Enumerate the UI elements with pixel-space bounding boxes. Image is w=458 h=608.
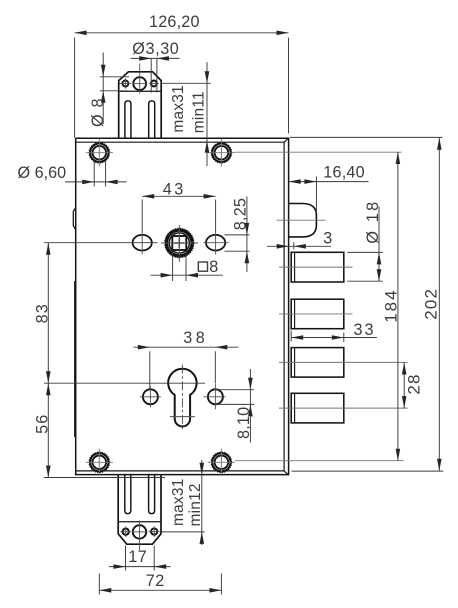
dim 72 extension lines bbox=[99, 574, 221, 595]
top-left screw knurled rim bbox=[89, 143, 109, 163]
dim 83 line bbox=[47, 243, 49, 384]
lock body inner top edge bbox=[76, 141, 284, 143]
svg-text:17: 17 bbox=[128, 548, 147, 566]
left oval hole bbox=[133, 235, 152, 251]
dim max31-min11 line bbox=[206, 62, 208, 166]
bottom plate right slot bbox=[149, 475, 155, 514]
svg-text:max31: max31 bbox=[170, 478, 187, 526]
svg-text:38: 38 bbox=[183, 329, 208, 347]
dim 33 line bbox=[291, 337, 377, 339]
lock body inner bottom edge bbox=[76, 470, 284, 472]
svg-text:8: 8 bbox=[209, 258, 218, 276]
left oval crosshair bbox=[141, 231, 143, 254]
left edge reinforcement line bbox=[74, 281, 76, 437]
bottom plate flange line bbox=[118, 521, 161, 523]
dim 3 arrows bbox=[277, 244, 306, 249]
dim 16,40 arrows bbox=[289, 179, 317, 184]
lock body outer outline bbox=[76, 138, 289, 474]
dim 202 extension lines bbox=[290, 137, 443, 471]
dim 202 line bbox=[438, 138, 440, 471]
bottom plate right hole crosshair bbox=[149, 526, 160, 537]
dim 72 arrows bbox=[99, 588, 221, 593]
svg-text:43: 43 bbox=[163, 181, 186, 199]
svg-text:Ø 8: Ø 8 bbox=[89, 97, 107, 127]
dim □8 extension lines bbox=[173, 251, 186, 281]
dim 83 arrows bbox=[46, 243, 51, 384]
bottom plate center hole crosshair bbox=[132, 521, 147, 550]
right oval crosshair bbox=[203, 231, 228, 254]
dim Ø18 line bbox=[378, 207, 380, 282]
dim 28 label bbox=[405, 373, 424, 394]
dim Ø8 arrows bbox=[101, 65, 106, 103]
dim 72 line bbox=[99, 589, 221, 591]
dim 16,40 label bbox=[323, 163, 365, 181]
top plate center hole ∅8 bbox=[133, 77, 146, 90]
dim 8,10 label bbox=[235, 407, 253, 439]
dim 38 arrows bbox=[138, 345, 228, 350]
dim 16,40 extension line bbox=[315, 177, 317, 213]
dim 3 label bbox=[323, 229, 332, 247]
right oval hole bbox=[206, 235, 225, 251]
bottom-left screw knurled rim bbox=[89, 452, 109, 472]
keyhole left circle crosshair bbox=[140, 386, 161, 407]
bottom mounting plate outline bbox=[118, 475, 161, 545]
keyhole left fixing circle bbox=[143, 389, 158, 404]
svg-text:83: 83 bbox=[33, 303, 51, 323]
top-right screw head outer ring bbox=[212, 144, 230, 162]
top plate left hole crosshair bbox=[120, 78, 132, 89]
svg-text:max31: max31 bbox=[170, 85, 187, 133]
dim 28 arrows bbox=[402, 363, 407, 409]
dim Ø6,60 label bbox=[18, 164, 67, 182]
bottom-right screw head outer ring bbox=[212, 453, 230, 471]
dim max31-min12 extension line bbox=[161, 531, 204, 533]
spindle square plus mark bbox=[174, 238, 184, 248]
deadbolt 2 shoulder line bbox=[294, 299, 296, 329]
dim 126,20 arrows bbox=[75, 31, 289, 36]
dim 16,40 line bbox=[289, 181, 369, 183]
bottom-right screw crosshair bbox=[208, 449, 235, 476]
spindle square hole □8 bbox=[172, 236, 186, 250]
keyhole stem cross line bbox=[170, 416, 195, 418]
deadbolt 1 shoulder line bbox=[294, 252, 296, 282]
svg-text:33: 33 bbox=[354, 321, 376, 339]
dim 28 line bbox=[403, 363, 405, 409]
bottom plate left hole bbox=[123, 529, 129, 535]
dim min11 label bbox=[191, 91, 208, 133]
dim 8,25 extension lines bbox=[225, 235, 250, 251]
dim □8 arrows bbox=[161, 273, 198, 278]
dim Ø6,60 arrows bbox=[82, 180, 117, 185]
top plate left slot bbox=[125, 101, 131, 138]
dim max31-min11 arrows bbox=[205, 71, 210, 152]
top-left screw head inner ring bbox=[93, 146, 107, 160]
bottom plate left slot bbox=[125, 475, 131, 514]
dim 184 line bbox=[397, 152, 399, 461]
dim 83 label bbox=[33, 303, 51, 323]
spindle crosshair bbox=[161, 225, 198, 262]
dim 126,20 label bbox=[149, 13, 200, 31]
dim 202 label bbox=[421, 288, 440, 320]
svg-text:56: 56 bbox=[33, 413, 51, 433]
svg-text:8,25: 8,25 bbox=[231, 198, 249, 230]
svg-text:Ø3,30: Ø3,30 bbox=[132, 40, 179, 58]
dim Ø18 arrows bbox=[377, 252, 382, 281]
dim Ø6,60 extension lines bbox=[94, 160, 105, 187]
top-right screw head inner ring bbox=[215, 146, 229, 160]
dim 126,20 extension lines bbox=[75, 38, 289, 138]
dim Ø18 extension lines bbox=[347, 252, 382, 281]
dim 33 arrows bbox=[291, 335, 344, 340]
dim □8 line bbox=[151, 274, 224, 276]
dim 3 line bbox=[267, 245, 331, 247]
dim min12 label bbox=[187, 483, 204, 526]
spindle hub outer ring bbox=[166, 230, 192, 256]
dim 43 label bbox=[163, 181, 186, 199]
deadbolt 3 shoulder line bbox=[294, 348, 296, 378]
keyhole right fixing circle bbox=[208, 389, 223, 404]
dim Ø3,30 label bbox=[132, 40, 179, 58]
top-left screw crosshair bbox=[86, 139, 113, 166]
dim 184 extension lines bbox=[235, 152, 404, 461]
top plate flange line bbox=[119, 90, 162, 92]
deadbolt 2 centerline bbox=[279, 313, 353, 315]
dim 8,25 arrows bbox=[245, 223, 250, 263]
faceplate top-right chamfer bbox=[284, 138, 289, 142]
top plate left hole bbox=[122, 81, 128, 87]
dim 202 arrows bbox=[437, 138, 442, 471]
dim max31-min12 line bbox=[201, 460, 203, 545]
svg-text:Ø 6,60: Ø 6,60 bbox=[18, 164, 67, 182]
dim 17 label bbox=[128, 548, 147, 566]
deadbolt 4 centerline bbox=[279, 407, 408, 409]
dim 8,10 line bbox=[249, 369, 251, 443]
dim 17 extension lines bbox=[126, 546, 155, 571]
svg-text:Ø 18: Ø 18 bbox=[364, 200, 382, 244]
deadbolt 1 centerline bbox=[279, 266, 353, 268]
dim 33 extension tick bbox=[291, 331, 344, 342]
dim 8,25 line bbox=[246, 197, 248, 272]
spindle hub knurled rim bbox=[165, 228, 194, 257]
deadbolt 3 centerline bbox=[279, 361, 408, 363]
dim 83 extension lines bbox=[44, 243, 205, 384]
dim max31-min11 extension line bbox=[161, 82, 211, 84]
faceplate bottom-right chamfer bbox=[284, 471, 289, 475]
top-left screw head outer ring bbox=[90, 144, 108, 162]
dim 8,10 extension lines bbox=[216, 390, 254, 405]
dim 56 line bbox=[47, 383, 49, 477]
top mounting plate outline bbox=[119, 72, 162, 138]
dim 17 line bbox=[109, 566, 171, 568]
top plate right hole ∅3.30 bbox=[151, 81, 157, 87]
dim 38 label bbox=[183, 329, 208, 347]
dim 3 extension tick bbox=[293, 242, 295, 249]
deadbolt 4 shoulder line bbox=[294, 393, 296, 423]
dim 38 extension lines bbox=[150, 351, 216, 388]
bottom plate center hole bbox=[133, 525, 146, 538]
latch bolt bbox=[289, 204, 317, 237]
dim 17 arrows bbox=[114, 564, 167, 569]
dim □8 square symbol bbox=[198, 262, 207, 271]
dim Ø18 label bbox=[364, 200, 382, 244]
top plate center hole crosshair bbox=[132, 64, 147, 94]
dim 8,10 arrows bbox=[248, 378, 253, 417]
svg-text:72: 72 bbox=[146, 572, 165, 590]
dim 72 label bbox=[146, 572, 165, 590]
dim 8,25 label bbox=[231, 198, 249, 230]
dim max31-min12 arrows bbox=[200, 463, 205, 544]
top plate right hole crosshair bbox=[149, 83, 159, 85]
keyhole right circle crosshair bbox=[203, 384, 225, 409]
dim max31 label bbox=[170, 85, 187, 133]
svg-text:202: 202 bbox=[421, 288, 440, 320]
dim Ø8 label bbox=[89, 97, 107, 127]
top-right screw crosshair bbox=[208, 139, 235, 166]
svg-text:min11: min11 bbox=[191, 91, 208, 133]
dim Ø8 line bbox=[102, 53, 104, 125]
bottom-left screw head outer ring bbox=[90, 453, 108, 471]
svg-text:8,10: 8,10 bbox=[235, 407, 253, 439]
deadbolt 2 bbox=[291, 299, 344, 329]
svg-text:3: 3 bbox=[323, 229, 332, 247]
latch centerline bbox=[277, 219, 326, 221]
bottom-left screw head inner ring bbox=[93, 456, 107, 470]
bottom plate left hole crosshair bbox=[120, 526, 131, 537]
euro cylinder keyhole bbox=[168, 369, 196, 427]
spindle hub inner circle bbox=[169, 233, 189, 253]
svg-text:126,20: 126,20 bbox=[149, 13, 200, 31]
faceplate inner edge bbox=[283, 142, 285, 471]
deadbolt 3 bbox=[291, 348, 344, 378]
dim 38 line bbox=[134, 346, 239, 348]
deadbolt 4 bbox=[291, 393, 344, 423]
dim 184 arrows bbox=[396, 152, 401, 461]
dim 126,20 line bbox=[75, 32, 289, 34]
svg-text:28: 28 bbox=[405, 373, 424, 394]
bottom-right screw knurled rim bbox=[211, 452, 231, 472]
deadbolt 1 bbox=[291, 252, 344, 282]
dim 43 arrows bbox=[142, 194, 215, 199]
dim 43 line bbox=[142, 195, 215, 197]
dim 184 label bbox=[381, 288, 400, 322]
dim max31 bottom label bbox=[170, 478, 187, 526]
top-right screw knurled rim bbox=[211, 143, 231, 163]
left edge tab bbox=[73, 207, 75, 229]
dim 43 extension lines bbox=[142, 200, 215, 232]
svg-text:184: 184 bbox=[381, 288, 400, 322]
dim Ø8 extension lines bbox=[100, 77, 129, 91]
dim 56 label bbox=[33, 413, 51, 433]
svg-text:min12: min12 bbox=[187, 483, 204, 526]
dim □8 label bbox=[209, 258, 218, 276]
dim Ø3,30 arrows bbox=[139, 56, 169, 61]
bottom plate right hole bbox=[151, 529, 157, 535]
dim Ø3,30 line bbox=[131, 57, 180, 59]
dim 56 extension line bbox=[44, 477, 165, 479]
dim 56 arrows bbox=[46, 383, 51, 477]
svg-text:16,40: 16,40 bbox=[323, 163, 365, 181]
bottom-left screw crosshair bbox=[86, 449, 113, 476]
dim Ø3,30 extension lines bbox=[151, 58, 157, 92]
keyhole vertical centerline bbox=[181, 365, 183, 432]
bottom-right screw head inner ring bbox=[215, 456, 229, 470]
dim Ø6,60 line bbox=[65, 181, 127, 183]
dim 33 label bbox=[354, 321, 376, 339]
top plate right slot bbox=[149, 101, 155, 138]
